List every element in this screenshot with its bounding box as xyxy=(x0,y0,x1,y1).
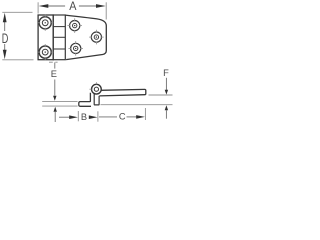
svg-text:A: A xyxy=(69,0,76,13)
svg-text:C: C xyxy=(119,112,126,122)
svg-text:D: D xyxy=(2,31,9,46)
svg-text:F: F xyxy=(163,68,169,78)
svg-text:B: B xyxy=(81,112,87,122)
svg-text:E: E xyxy=(51,69,57,79)
